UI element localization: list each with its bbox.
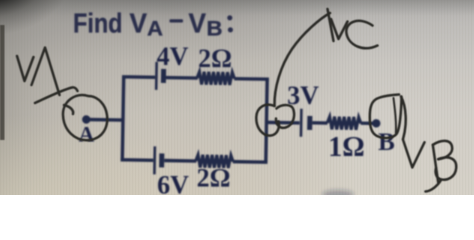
dark photo corner top-left [0,0,160,110]
wire: node A lead [86,118,123,122]
wire: left loop rectangle verticals [122,77,123,160]
wire: bottom branch mid segment [164,159,196,163]
small hook near node A [64,105,73,114]
svg-text:A: A [147,17,163,41]
svg-text:4V: 4V [157,42,189,71]
wire: top branch left segment [122,75,155,79]
resistor 2Ω (bottom) zigzag [196,155,234,168]
handwritten V of "VB" [403,139,425,167]
node B dot [372,119,381,128]
svg-text:V: V [130,7,148,38]
handwritten B stem of "VB" [433,145,438,183]
battery 3V plates [300,109,303,137]
wire: top branch mid segment [166,76,198,80]
handwritten B lower loop of "VB" [436,157,457,179]
title text "Find VA - VB :" [73,7,223,40]
wire: top branch right segment [234,77,269,81]
handwritten left oval around junction [256,105,279,136]
svg-text:1Ω: 1Ω [328,132,364,163]
top edge shading [0,0,474,16]
wire: bottom branch right segment [233,160,268,164]
handwritten V of "VC" [331,19,348,39]
svg-text:B: B [378,129,395,156]
wire: 3V battery to resistor 1Ω [312,121,327,125]
handwriting layer [17,9,456,192]
svg-text:6V: 6V [157,171,189,196]
svg-text:B: B [207,17,223,41]
circuit (rotated slightly like the photo) [81,61,381,178]
handwritten A crossbar swoosh [35,87,78,103]
handwritten A of "VA" [32,48,60,96]
minus sign [170,19,184,22]
handwritten circle around node A [63,95,107,140]
handwritten C of "VC" [346,21,377,48]
node A dot [82,115,91,124]
colon [227,15,232,20]
svg-text:Find: Find [73,7,123,38]
wire: resistor 1Ω to node B [361,121,377,125]
svg-text:V: V [189,7,207,38]
handwritten curve from VC to junction [274,13,330,106]
handwritten tick of "VC" [328,9,334,41]
battery 4V plates [155,62,158,90]
wire: right branch to 3V battery [266,121,299,125]
resistor 2Ω (top) zigzag [197,72,235,85]
handwritten B tail of "VB" [426,180,442,192]
resistor 1Ω zigzag [327,116,361,129]
svg-text:A: A [79,122,95,147]
svg-text:2Ω: 2Ω [198,44,232,73]
printed layer [73,7,395,199]
handwritten inner stroke of B circle [394,98,396,133]
dark left edge sliver [0,25,5,140]
circuit value labels [79,42,395,200]
handwritten circle around node B [370,95,402,139]
faint cut-off print at bottom edge [322,190,354,199]
svg-text:2Ω: 2Ω [197,164,231,193]
handwritten V of "VA" [17,56,34,81]
handwritten B upper loop of "VB" [433,141,452,159]
handwritten right loop around junction [276,105,294,128]
handwritten curve from B circle to VB [401,97,406,139]
battery 6V plates [153,146,156,174]
wire: bottom branch left segment [121,158,154,162]
